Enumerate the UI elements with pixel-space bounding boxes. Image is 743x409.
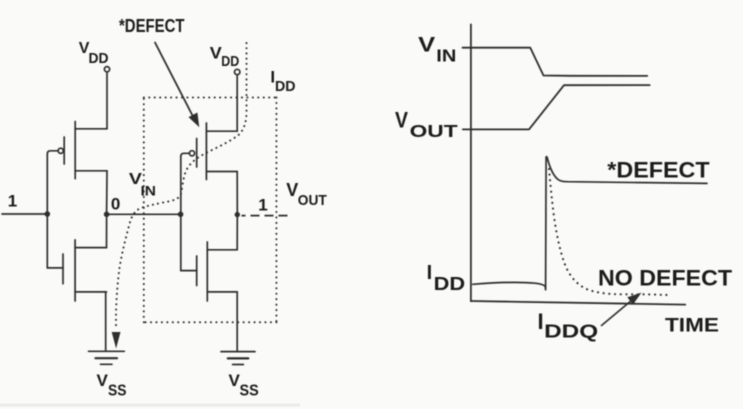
- wire M3 drain to output node: [236, 172, 238, 215]
- svg-text:0: 0: [111, 194, 120, 213]
- svg-text:DD: DD: [434, 274, 466, 294]
- svg-text:TIME: TIME: [665, 315, 719, 337]
- ground VSS (inverter 1): [89, 351, 125, 364]
- svg-text:V: V: [97, 371, 109, 390]
- IDD defect waveform with spike: [473, 157, 707, 290]
- svg-text:*DEFECT: *DEFECT: [607, 158, 710, 183]
- svg-text:DDQ: DDQ: [544, 322, 598, 342]
- ground VSS (inverter 2): [221, 352, 255, 365]
- wire VDD1 to M1 source: [106, 72, 108, 129]
- transistor M3 PMOS inverter 2: [184, 123, 237, 180]
- svg-text:V: V: [418, 34, 435, 57]
- svg-text:IN: IN: [141, 183, 157, 199]
- node input junction: [45, 211, 51, 217]
- svg-text:I: I: [538, 309, 544, 334]
- wire node 0 to VIN node: [107, 213, 181, 215]
- wire M4 source to ground: [236, 292, 238, 351]
- svg-text:1: 1: [8, 192, 17, 211]
- svg-text:NO DEFECT: NO DEFECT: [598, 266, 732, 291]
- power VDD terminal circle (inverter 2): [235, 69, 240, 74]
- NO DEFECT dotted decay curve: [549, 169, 668, 295]
- svg-text:V: V: [395, 108, 408, 133]
- node 0 junction: [104, 212, 110, 218]
- IDDQ pointer arrow: [602, 293, 642, 326]
- dotted IDDQ measurement box: [144, 98, 277, 323]
- svg-text:SS: SS: [108, 383, 127, 400]
- dashed wire output to VOUT: [242, 215, 293, 217]
- svg-text:IN: IN: [436, 45, 456, 65]
- transistor M4 NMOS inverter 2: [181, 242, 237, 301]
- wire M1 drain to node 0: [106, 171, 108, 215]
- wire VDD2 to M3 source: [236, 75, 238, 132]
- arrowhead defect current into VSS: [112, 332, 121, 349]
- wire input: [2, 213, 47, 215]
- faint slide edge bottom-left: [0, 404, 300, 407]
- svg-text:SS: SS: [240, 382, 259, 399]
- node output junction: [235, 212, 240, 217]
- svg-text:DD: DD: [221, 53, 239, 70]
- transistor M2 NMOS inverter 1: [47, 240, 106, 301]
- wire gate rail inverter 1: [47, 151, 50, 268]
- transistor M1 PMOS inverter 1: [50, 122, 107, 179]
- VIN waveform: [463, 48, 648, 76]
- VOUT waveform: [463, 85, 650, 129]
- power VDD terminal circle (inverter 1): [104, 67, 109, 72]
- svg-text:OUT: OUT: [410, 121, 458, 141]
- PLOT: vertical axis: [470, 24, 472, 301]
- svg-text:DD: DD: [275, 78, 296, 95]
- defect pointer arrow: [155, 43, 199, 128]
- wire output node to M4 drain: [236, 215, 238, 250]
- svg-text:V: V: [286, 180, 298, 200]
- svg-text:OUT: OUT: [298, 192, 327, 209]
- svg-text:*DEFECT: *DEFECT: [119, 16, 185, 36]
- wire gate rail inverter 2: [181, 153, 184, 270]
- node VIN junction: [178, 212, 184, 218]
- dotted defect current path: [116, 43, 247, 330]
- wire M2 source to ground: [105, 292, 107, 351]
- svg-text:I: I: [427, 262, 433, 284]
- svg-text:DD: DD: [89, 50, 109, 67]
- svg-text:1: 1: [258, 195, 267, 214]
- wire node 0 to M2 drain: [106, 214, 108, 247]
- PLOT: time axis: [471, 301, 685, 305]
